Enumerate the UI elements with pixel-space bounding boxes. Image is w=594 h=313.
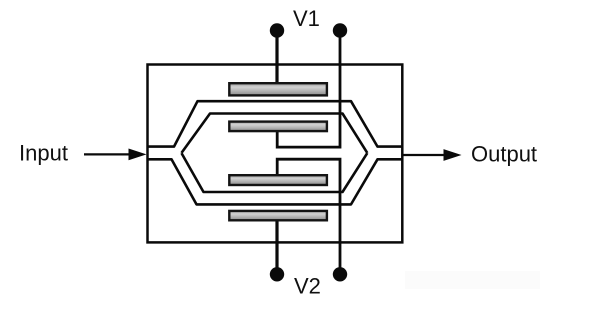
box outline of modulator body bbox=[148, 65, 403, 243]
node V1 left terminal dot bbox=[270, 23, 284, 37]
wire lower outer waveguide path bbox=[148, 159, 403, 204]
electrode bar 2 (upper middle) bbox=[229, 122, 327, 132]
output arrow bbox=[403, 149, 462, 161]
node V2 left terminal dot bbox=[270, 267, 284, 281]
node V2 right terminal dot bbox=[333, 267, 347, 281]
electrode bar 3 (lower middle) bbox=[229, 175, 327, 185]
svg-text:V1: V1 bbox=[293, 6, 320, 31]
wire upper inner waveguide path bbox=[182, 114, 368, 153]
wire V1 right terminal line to center electrode feed bbox=[277, 31, 340, 148]
input arrow bbox=[84, 149, 147, 161]
wire V2 right terminal line to center electrode feed bbox=[277, 159, 340, 274]
faint watermark smudge bbox=[405, 271, 540, 289]
wire upper outer waveguide path bbox=[148, 101, 403, 146]
node V1 right terminal dot bbox=[333, 23, 347, 37]
svg-text:V2: V2 bbox=[294, 274, 321, 299]
electrode bar 1 (top) bbox=[229, 83, 327, 95]
svg-text:Output: Output bbox=[471, 141, 537, 166]
electrode bar 4 (bottom) bbox=[229, 211, 327, 220]
wire V2 left terminal stem to bottom electrode bbox=[275, 220, 278, 274]
wire V1 left terminal stem to top electrode bbox=[275, 31, 278, 84]
wire lower inner waveguide path bbox=[182, 153, 368, 192]
svg-text:Input: Input bbox=[19, 140, 68, 165]
